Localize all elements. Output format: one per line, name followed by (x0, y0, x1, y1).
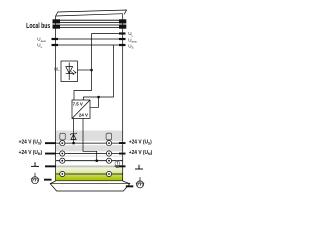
svg-text:UL: UL (54, 67, 60, 72)
svg-text:24 V: 24 V (79, 112, 88, 117)
svg-text:7.5 V: 7.5 V (73, 101, 83, 106)
svg-text:Local bus: Local bus (26, 23, 51, 31)
